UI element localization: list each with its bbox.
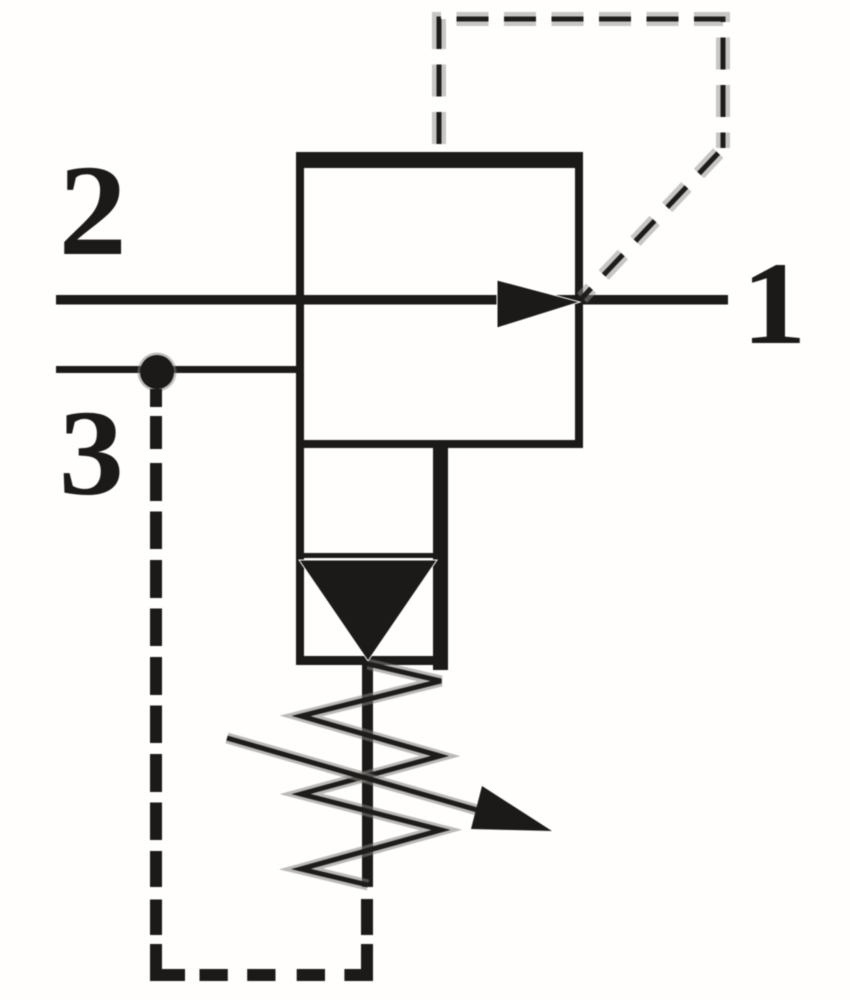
adjustment arrow head [471, 786, 552, 831]
port 3 line [56, 366, 300, 373]
left edge [296, 152, 304, 448]
pilot line dashed box (top) core [439, 19, 723, 152]
pilot diagonal dashed line halo [582, 148, 723, 298]
adjustment arrow line halo [227, 738, 505, 818]
flow line port 2 to port 1 [56, 295, 728, 305]
svg-text:3: 3 [59, 385, 124, 521]
adjustment arrow line core [227, 738, 505, 818]
top edge [296, 152, 583, 168]
seat line [300, 553, 437, 558]
drain pilot dashed line: left vertical run [150, 389, 162, 935]
drain pilot dashed line: bottom-left corner dash [150, 944, 185, 981]
port label 3 [59, 385, 124, 521]
spring stem [362, 661, 373, 887]
poppet triangle [299, 560, 437, 661]
valve body square (main envelope) [296, 152, 583, 448]
flow arrow [497, 280, 580, 328]
spring zigzag halo [301, 664, 441, 885]
drain pilot dashed line: right vertical run [361, 899, 373, 935]
bottom edge [296, 440, 583, 448]
drain pilot dashed line: bottom horizontal run [200, 969, 326, 981]
right edge [575, 152, 583, 448]
drain pilot dashed line: bottom-right corner dash [344, 944, 373, 981]
svg-text:1: 1 [742, 237, 807, 368]
junction node dot [140, 355, 174, 389]
spring zigzag core [301, 664, 441, 885]
svg-text:2: 2 [59, 138, 127, 282]
pilot diagonal dashed line core [582, 148, 723, 298]
right edge [433, 440, 448, 670]
spring cage rectangle (lower) [296, 440, 448, 670]
port label 1 [742, 237, 807, 368]
left edge [296, 448, 304, 665]
port label 2 [59, 138, 127, 282]
junction node dot halo [138, 353, 177, 392]
bottom edge [296, 656, 448, 665]
pilot line dashed box (top) halo [439, 19, 723, 152]
